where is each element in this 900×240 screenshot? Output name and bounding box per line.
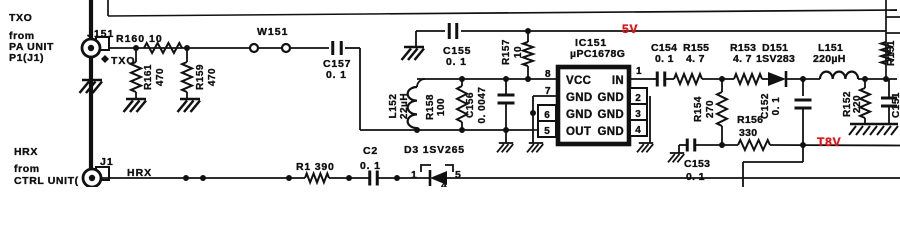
svg-text:0. 1: 0. 1 [360, 160, 381, 172]
svg-text:0. 1: 0. 1 [326, 69, 347, 81]
ground below R159 [178, 99, 201, 112]
capacitor C155 [443, 23, 471, 68]
svg-text:1SV283: 1SV283 [756, 53, 795, 65]
inductor L151 [813, 42, 897, 82]
node TXO tag [101, 55, 136, 67]
wire junction D151/C152 [800, 76, 820, 82]
node HRX from CTRL UNIT label [14, 146, 79, 187]
resistor R151 [881, 40, 897, 66]
svg-text:R161: R161 [143, 64, 154, 90]
capacitor C154 [651, 42, 677, 87]
svg-text:8: 8 [545, 69, 551, 80]
wire bottom rail of matching network [360, 127, 533, 133]
svg-text:T8V: T8V [817, 135, 841, 149]
svg-text:0. 1: 0. 1 [655, 53, 674, 65]
node HRX tag [127, 167, 152, 179]
wire VCC rail (pin 8 row) [417, 76, 556, 82]
connector J151 [82, 28, 114, 57]
node T8V [817, 135, 841, 149]
svg-text:P1(J1): P1(J1) [9, 52, 44, 64]
svg-text:R156: R156 [737, 114, 763, 126]
ground left of C153 [668, 153, 684, 162]
svg-text:6: 6 [544, 110, 550, 121]
svg-text:D3 1SV265: D3 1SV265 [404, 144, 465, 156]
svg-text:R151: R151 [886, 40, 897, 66]
pin 3 box [630, 104, 647, 120]
svg-text:W151: W151 [257, 26, 288, 38]
resistor R158 [425, 79, 467, 130]
svg-text:OUT: OUT [566, 126, 591, 138]
ground below R161 [124, 99, 147, 112]
capacitor C157 [323, 41, 351, 81]
capacitor C156 [465, 79, 515, 130]
svg-text:CTRL UNIT(: CTRL UNIT( [14, 175, 79, 187]
svg-text:330: 330 [739, 127, 757, 139]
svg-text:220µH: 220µH [813, 53, 846, 65]
svg-text:5: 5 [455, 169, 461, 181]
pin 6 box [538, 105, 556, 121]
wire HRX row right [447, 177, 900, 179]
svg-text:4: 4 [635, 125, 641, 136]
svg-text:1: 1 [411, 169, 417, 181]
svg-text:R159: R159 [195, 64, 206, 90]
svg-text:GND: GND [598, 126, 624, 138]
ground wide right edge [849, 124, 898, 135]
svg-text:from: from [14, 163, 40, 175]
resistor R1 [296, 161, 335, 183]
pin 7 stub [533, 95, 556, 97]
capacitor C153 [679, 139, 710, 184]
resistor R154 [693, 79, 727, 145]
ground below C156 [497, 130, 513, 152]
wire C157 to corner, down to bottom rail [345, 48, 360, 130]
svg-text:C156: C156 [465, 92, 476, 118]
ground below pins 5-6-7 [527, 143, 543, 152]
ground below pin 4 [637, 143, 653, 152]
wire top border riser [107, 0, 109, 16]
svg-text:3: 3 [635, 109, 641, 120]
wire pins 5-6-7 vertical to ground [530, 96, 538, 143]
pin 1 [636, 66, 642, 77]
wire junction R155/R153/R154 [719, 76, 725, 82]
svg-text:R157: R157 [501, 39, 512, 65]
pin 5 box [538, 121, 556, 137]
ground below J151 [80, 57, 103, 93]
pin 8 [545, 69, 551, 80]
resistor R152 [842, 79, 870, 124]
wire right vertical rail [885, 0, 887, 79]
wire R156 to T8V [770, 142, 900, 148]
node 5V [622, 22, 638, 36]
node TXO from PA UNIT label [9, 12, 54, 64]
diode D3 [404, 144, 465, 192]
resistor R159 [182, 48, 218, 99]
svg-text:GND: GND [566, 109, 592, 121]
pin 1 wire [630, 78, 652, 80]
svg-text:J1: J1 [100, 156, 114, 168]
wire R1 to C2 [329, 175, 370, 181]
resistor R161 [131, 48, 166, 99]
svg-text:TXO: TXO [9, 12, 32, 24]
op-amp U IC151 labels [570, 37, 625, 60]
svg-text:0. 1: 0. 1 [446, 56, 467, 68]
connector J1 [83, 156, 114, 187]
wire PA-unit boundary (thick vertical) [89, 0, 93, 170]
svg-text:4: 4 [441, 180, 447, 187]
svg-text:R160 10: R160 10 [116, 33, 163, 45]
wire HRX row left [101, 175, 305, 181]
svg-text:470: 470 [207, 68, 218, 86]
resistor R160 [116, 33, 182, 53]
svg-text:J151: J151 [87, 28, 114, 40]
svg-text:0. 0047: 0. 0047 [477, 87, 488, 124]
svg-text:HRX: HRX [14, 146, 38, 158]
resistor R155 [666, 42, 722, 84]
wire TXO row: J151 to W151 [100, 45, 250, 51]
svg-text:R154: R154 [693, 96, 704, 122]
svg-text:100: 100 [436, 98, 447, 116]
svg-text:IN: IN [612, 75, 624, 87]
svg-text:L152: L152 [388, 94, 399, 119]
svg-text:GND: GND [598, 92, 624, 104]
wire pins 2-3-4 vertical to ground [649, 96, 651, 143]
connector W151 [250, 26, 290, 52]
wire W151 link [258, 47, 282, 49]
capacitor C152 [760, 79, 812, 145]
op-amp U IC151 body [558, 67, 629, 144]
svg-text:0. 1: 0. 1 [771, 97, 782, 116]
svg-text:270: 270 [705, 100, 716, 118]
svg-text:R158: R158 [425, 94, 436, 120]
pin 4 box [630, 120, 647, 136]
svg-text:4. 7: 4. 7 [686, 53, 705, 65]
wire T8V branch down-left [743, 145, 803, 187]
svg-text:C151: C151 [891, 92, 900, 118]
svg-text:µPC1678G: µPC1678G [570, 48, 625, 60]
svg-text:GND: GND [598, 109, 624, 121]
capacitor C2 [360, 145, 381, 186]
resistor R156 [737, 114, 770, 150]
svg-text:C153: C153 [684, 158, 710, 170]
svg-text:GND: GND [566, 92, 592, 104]
svg-text:470: 470 [155, 68, 166, 86]
resistor R157 [501, 28, 533, 79]
svg-text:0. 1: 0. 1 [686, 171, 705, 183]
svg-text:C2: C2 [363, 145, 378, 157]
diode D151 [756, 42, 803, 87]
wire W151 to C157 [290, 47, 329, 49]
svg-text:5V: 5V [622, 22, 638, 36]
svg-text:2: 2 [635, 93, 641, 104]
svg-text:220: 220 [852, 95, 863, 113]
pin 2 box [630, 88, 647, 104]
wire top border horizontal [108, 10, 897, 16]
svg-text:10: 10 [513, 46, 524, 58]
capacitor C151 [881, 79, 900, 124]
resistor R153 [722, 42, 768, 84]
svg-text:4. 7: 4. 7 [733, 53, 752, 65]
svg-text:5: 5 [544, 126, 550, 137]
wire C2 to D3 [377, 175, 431, 181]
node 5V rail [416, 31, 900, 33]
pin 7 [545, 86, 551, 97]
inductor L152 [388, 79, 425, 130]
svg-text:1: 1 [636, 66, 642, 77]
svg-text:VCC: VCC [566, 75, 591, 87]
svg-text:22µH: 22µH [399, 93, 410, 119]
ground left of C155 [402, 31, 425, 60]
wire right-edge stub upper [886, 16, 900, 18]
wire C153 to R154 junction [695, 142, 738, 148]
svg-text:R1 390: R1 390 [296, 161, 335, 173]
